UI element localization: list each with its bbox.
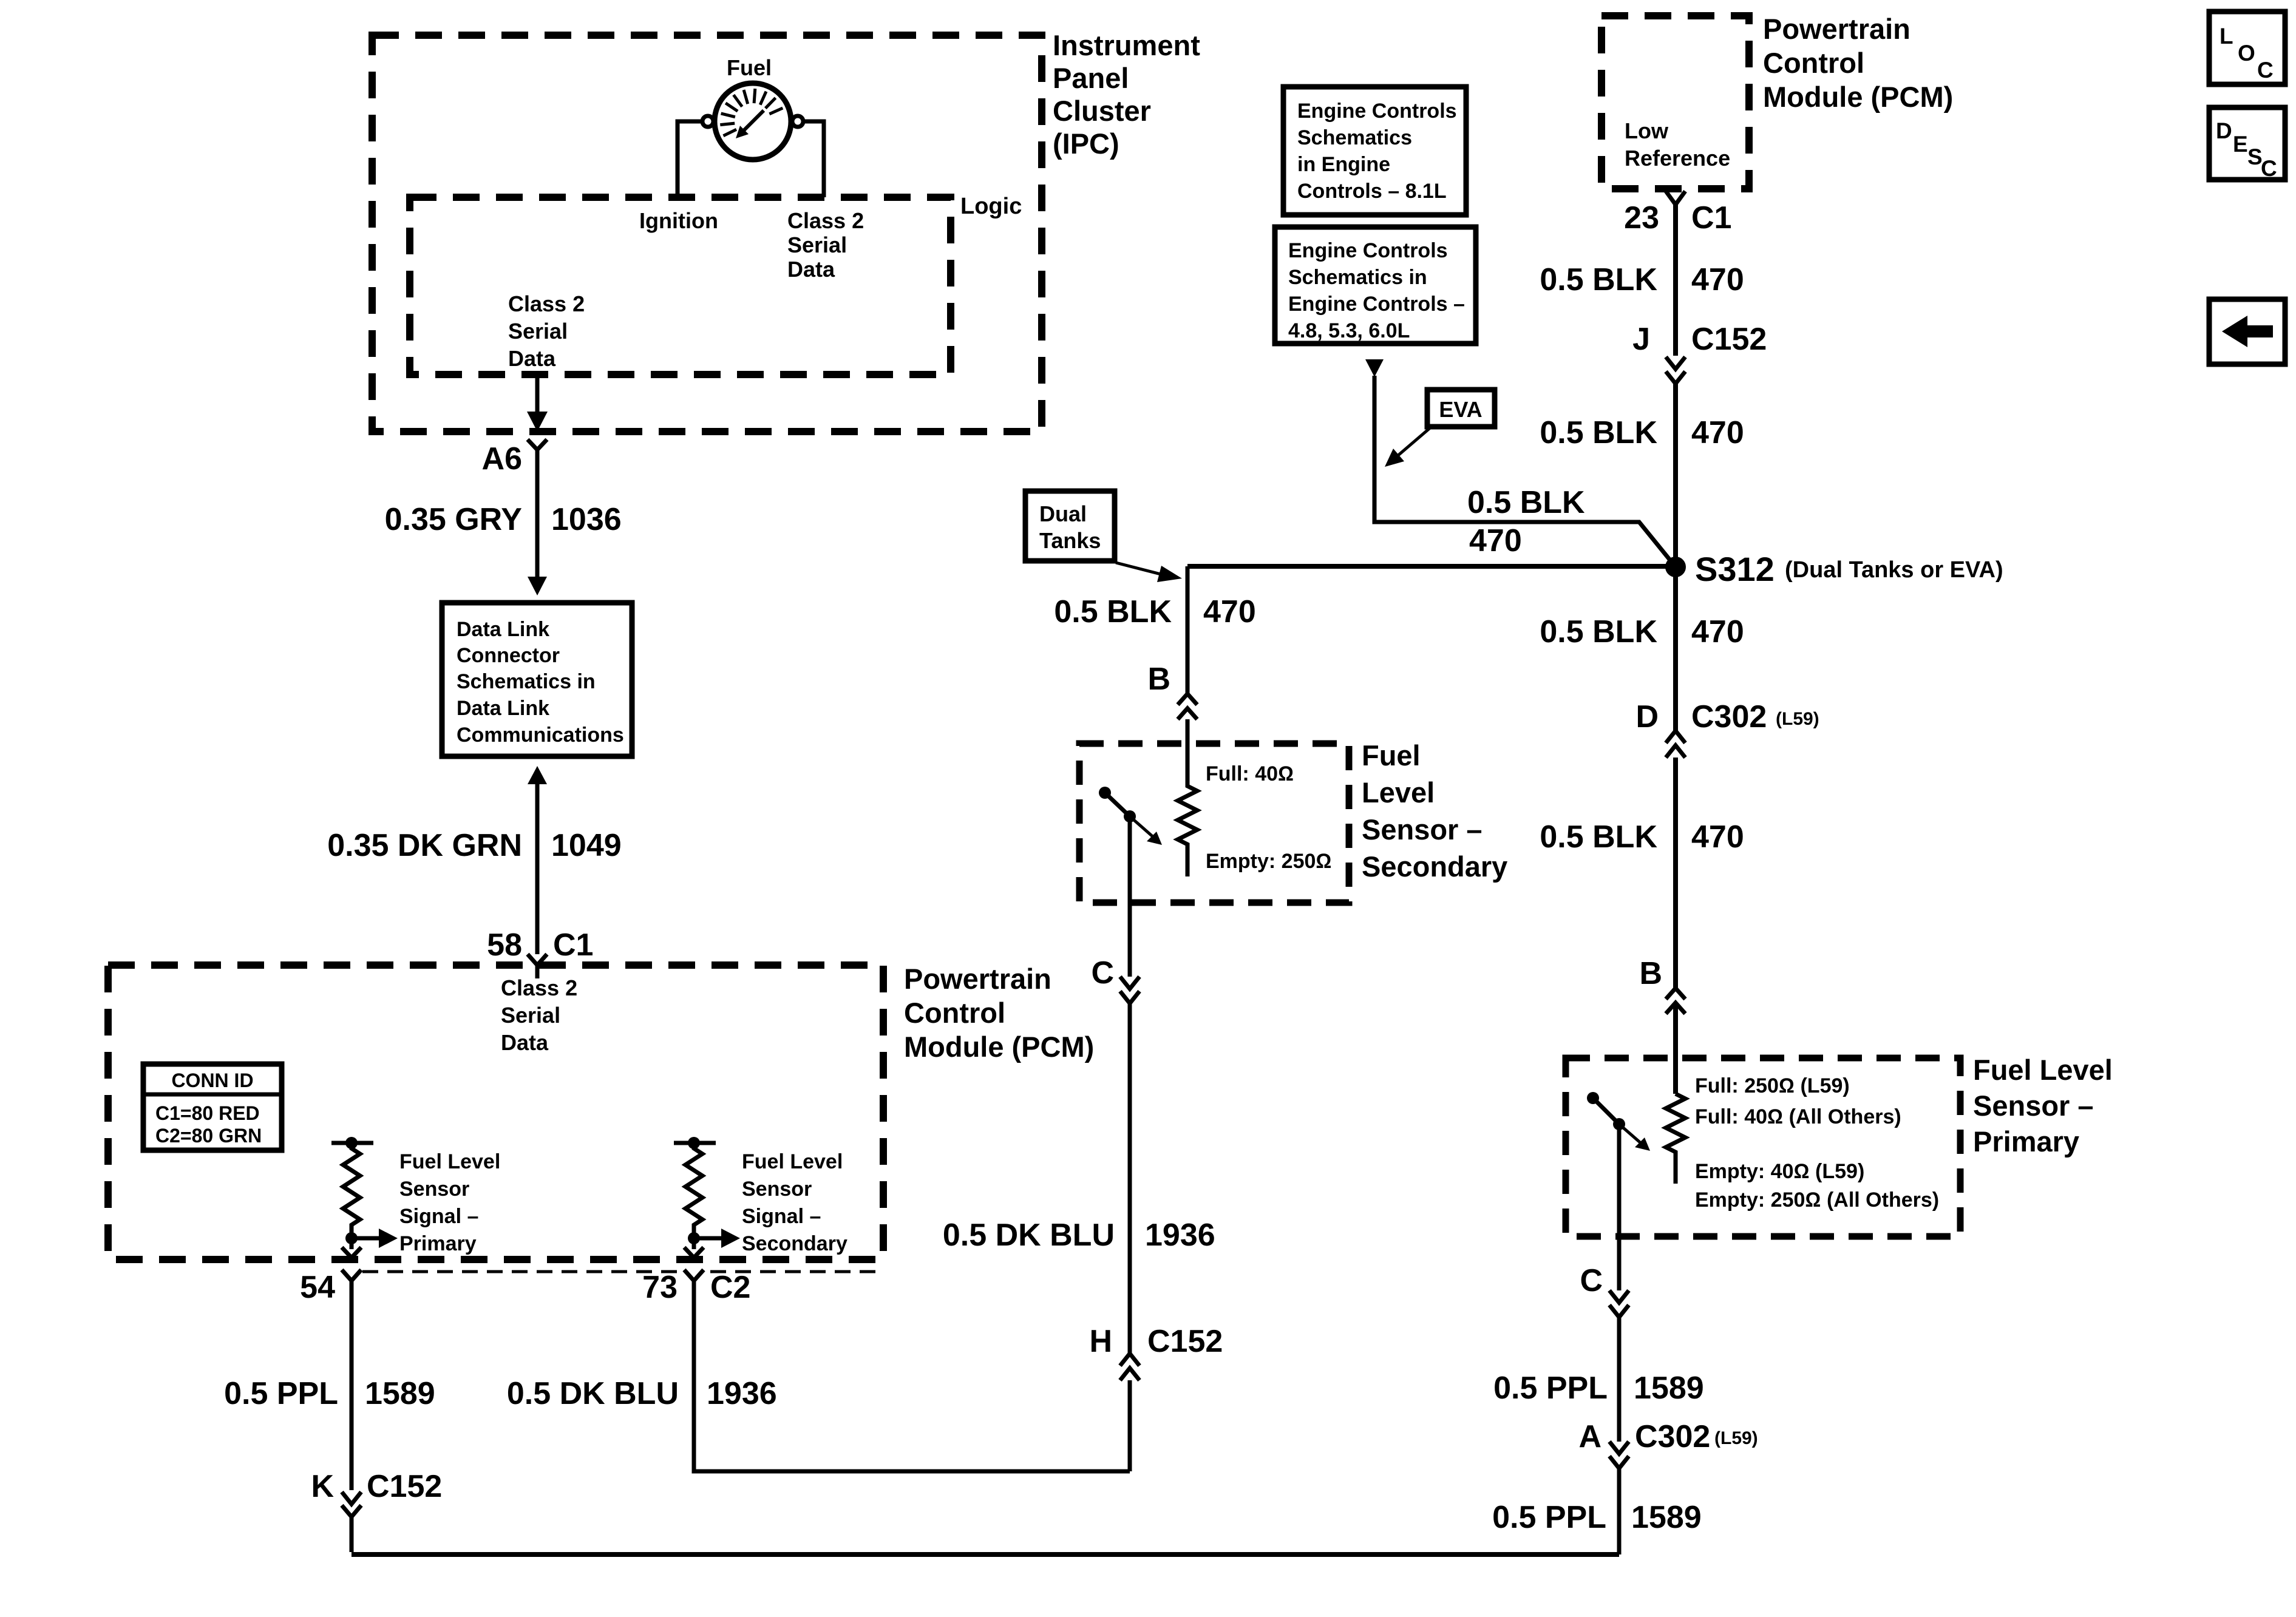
wire 470 BLK S312 to D C302 <box>1673 567 1678 731</box>
node S312 splice <box>1665 557 1686 577</box>
svg-text:Data: Data <box>501 1030 549 1055</box>
label Class 2 Serial Data (IPC output) <box>508 291 585 371</box>
svg-text:C302: C302 <box>1691 699 1767 734</box>
svg-text:Module (PCM): Module (PCM) <box>904 1031 1094 1063</box>
node arrow from engine controls box <box>1365 359 1384 377</box>
svg-text:Ignition: Ignition <box>639 208 718 233</box>
svg-text:470: 470 <box>1691 262 1744 297</box>
svg-text:Schematics: Schematics <box>1297 126 1412 149</box>
module Instrument Panel Cluster (IPC) dashed box <box>372 35 1042 432</box>
svg-text:470: 470 <box>1203 594 1256 629</box>
svg-text:Dual: Dual <box>1039 501 1087 526</box>
wire 470 BLK pin 23 to J C152 <box>1673 205 1678 356</box>
gauge G1 left pin <box>702 116 713 127</box>
label Fuel Level Sensor Signal Secondary <box>742 1150 847 1255</box>
svg-text:Full: 40Ω (All Others): Full: 40Ω (All Others) <box>1695 1105 1901 1128</box>
connector B of primary sensor <box>1666 988 1685 1014</box>
svg-text:C152: C152 <box>1147 1324 1223 1359</box>
svg-text:1589: 1589 <box>1634 1371 1704 1406</box>
resistor R4 primary sender element <box>1666 1094 1685 1184</box>
connector J C152 in-line <box>1666 357 1685 384</box>
box CONN ID legend <box>143 1064 282 1150</box>
svg-text:Schematics in: Schematics in <box>457 670 596 693</box>
connector pin 73 C2 of PCM <box>684 1270 704 1311</box>
label Fuel Level Sensor Signal Primary <box>399 1150 500 1255</box>
svg-text:C2: C2 <box>710 1270 750 1305</box>
svg-text:Signal –: Signal – <box>742 1205 821 1228</box>
svg-text:E: E <box>2233 132 2248 157</box>
gauge G1 needle <box>743 110 764 131</box>
box LOC nav button <box>2209 12 2285 84</box>
svg-text:1036: 1036 <box>551 502 622 537</box>
wire 1589 PPL A down to bottom run <box>1617 1468 1622 1554</box>
svg-text:4.8, 5.3, 6.0L: 4.8, 5.3, 6.0L <box>1288 319 1410 342</box>
svg-text:S312: S312 <box>1695 550 1775 588</box>
svg-text:A: A <box>1578 1419 1601 1454</box>
box DESC nav button <box>2209 107 2285 180</box>
svg-text:K: K <box>311 1469 334 1504</box>
module Fuel Level Sensor Secondary dashed box <box>1079 744 1349 903</box>
svg-text:0.5 BLK: 0.5 BLK <box>1467 485 1585 520</box>
svg-text:C: C <box>1580 1263 1603 1298</box>
gauge G1 right pin <box>792 116 803 127</box>
connector C of primary sensor <box>1609 1290 1629 1317</box>
svg-text:D: D <box>2216 118 2232 143</box>
connector pin 54 of PCM <box>342 1270 361 1311</box>
svg-text:1936: 1936 <box>1145 1218 1215 1253</box>
svg-text:C152: C152 <box>367 1469 442 1504</box>
svg-text:Sensor: Sensor <box>399 1178 469 1201</box>
svg-text:1589: 1589 <box>365 1376 435 1411</box>
svg-text:O: O <box>2238 41 2255 66</box>
svg-text:in Engine: in Engine <box>1297 153 1390 176</box>
resistor R3 secondary sender element <box>1178 719 1197 876</box>
label PCM title (lower left) <box>904 963 1094 1063</box>
wire R2 to pin 73 <box>692 1238 696 1249</box>
svg-text:0.5 PPL: 0.5 PPL <box>1493 1371 1608 1406</box>
svg-text:Engine Controls –: Engine Controls – <box>1288 293 1465 316</box>
wire 470 BLK EVA branch <box>1374 376 1673 564</box>
svg-text:Data Link: Data Link <box>457 697 549 720</box>
svg-text:1936: 1936 <box>707 1376 777 1411</box>
svg-text:Class 2: Class 2 <box>501 975 577 1000</box>
svg-text:L: L <box>2220 24 2233 49</box>
svg-text:Empty: 40Ω (L59): Empty: 40Ω (L59) <box>1695 1160 1864 1183</box>
svg-text:1589: 1589 <box>1631 1500 1702 1535</box>
svg-text:Class 2: Class 2 <box>787 208 864 233</box>
svg-text:0.5 DK BLU: 0.5 DK BLU <box>943 1218 1115 1253</box>
svg-text:0.5 PPL: 0.5 PPL <box>224 1376 338 1411</box>
svg-text:0.5 BLK: 0.5 BLK <box>1540 415 1657 450</box>
connector pin A6 of IPC <box>528 439 547 463</box>
svg-text:Serial: Serial <box>787 232 847 257</box>
svg-text:Tanks: Tanks <box>1039 528 1101 553</box>
wire gauge left pin to Logic box (Ignition) <box>678 121 702 197</box>
wire Dual Tanks leader arrow <box>1116 563 1161 574</box>
svg-text:(Dual Tanks or EVA): (Dual Tanks or EVA) <box>1785 557 2003 583</box>
wire dual tanks horizontal run to S312 <box>1187 564 1673 569</box>
resistor R1 fuel level sensor signal primary (in PCM) <box>331 1141 373 1145</box>
svg-text:Class 2: Class 2 <box>508 291 585 316</box>
svg-text:Control: Control <box>904 997 1005 1029</box>
svg-text:B: B <box>1147 662 1170 697</box>
svg-text:C: C <box>2257 58 2274 83</box>
svg-text:C1: C1 <box>553 927 593 963</box>
svg-text:C2=80 GRN: C2=80 GRN <box>155 1125 262 1147</box>
wire 1036 GRY from A6 to DLC box <box>535 463 540 578</box>
svg-text:Logic: Logic <box>960 194 1022 219</box>
svg-text:470: 470 <box>1469 523 1522 558</box>
svg-text:C: C <box>1091 955 1114 991</box>
connector B of secondary sensor <box>1178 694 1197 719</box>
wire Class 2 serial data from Logic box down to IPC edge <box>535 375 540 416</box>
svg-text:C302: C302 <box>1635 1419 1710 1454</box>
svg-text:Schematics in: Schematics in <box>1288 266 1427 289</box>
svg-text:EVA: EVA <box>1439 397 1482 422</box>
svg-text:(IPC): (IPC) <box>1053 127 1119 160</box>
switch SW2 primary sender wiper <box>1587 1092 1599 1104</box>
gauge G1 scale ticks <box>720 89 783 136</box>
label Fuel Level Sensor Secondary title <box>1362 739 1507 883</box>
wire 1936 DK BLU from H up to sensor wiper C <box>1128 1003 1132 1354</box>
svg-text:Engine Controls: Engine Controls <box>1297 100 1457 123</box>
wire 470 BLK secondary sensor to dual-tank run <box>1186 566 1190 694</box>
svg-text:Fuel: Fuel <box>727 55 772 80</box>
svg-text:470: 470 <box>1691 614 1744 649</box>
box Engine Controls Schematics 4.8 5.3 6.0L <box>1275 227 1476 344</box>
wire 1589 PPL from pin 54 down <box>350 1311 354 1490</box>
wire 470 BLK J to S312 <box>1673 384 1678 564</box>
svg-text:Sensor: Sensor <box>742 1178 812 1201</box>
svg-text:58: 58 <box>487 927 522 963</box>
module Powertrain Control Module (PCM) lower-left dashed box <box>108 965 883 1259</box>
svg-text:Empty: 250Ω: Empty: 250Ω <box>1206 850 1332 873</box>
svg-text:D: D <box>1635 699 1659 734</box>
wire B into primary sensor <box>1673 1003 1678 1094</box>
module Logic inner dashed box <box>410 197 951 375</box>
label Class 2 Serial Data (PCM input) <box>501 975 577 1055</box>
label Fuel Level Sensor Primary title <box>1973 1054 2113 1158</box>
svg-text:Instrument: Instrument <box>1053 29 1200 61</box>
svg-text:C: C <box>2261 156 2277 181</box>
connector pin 58 C1 of PCM <box>528 954 547 978</box>
wire R1 to pin 54 <box>350 1238 354 1249</box>
svg-text:Empty: 250Ω (All Others): Empty: 250Ω (All Others) <box>1695 1188 1939 1212</box>
svg-text:Data Link: Data Link <box>457 618 549 641</box>
svg-text:Sensor –: Sensor – <box>1362 813 1483 846</box>
svg-text:23: 23 <box>1624 200 1659 236</box>
box EVA tag <box>1427 390 1495 427</box>
wire 470 BLK D to B primary <box>1673 758 1678 988</box>
box Engine Controls Schematics 8.1L <box>1283 87 1466 215</box>
svg-text:CONN ID: CONN ID <box>171 1070 253 1091</box>
svg-text:Sensor –: Sensor – <box>1973 1090 2094 1122</box>
connector pin 23 C1 of PCM <box>1666 191 1685 219</box>
svg-text:Panel: Panel <box>1053 62 1129 94</box>
wire wiper of secondary sensor down to C <box>1128 816 1132 977</box>
resistor R2 fuel level sensor signal secondary (in PCM) <box>674 1141 716 1145</box>
svg-text:Fuel: Fuel <box>1362 739 1421 771</box>
svg-text:Controls – 8.1L: Controls – 8.1L <box>1297 180 1447 203</box>
switch SW1 secondary sender wiper <box>1099 787 1111 799</box>
label PCM title (top right) <box>1763 13 1953 113</box>
svg-text:C1=80 RED: C1=80 RED <box>155 1102 260 1124</box>
svg-text:C1: C1 <box>1691 200 1731 236</box>
box Data Link Connector reference <box>442 603 632 756</box>
svg-text:0.35 DK GRN: 0.35 DK GRN <box>327 828 522 863</box>
svg-text:1049: 1049 <box>551 828 622 863</box>
svg-text:Serial: Serial <box>501 1003 560 1028</box>
svg-text:Secondary: Secondary <box>1362 850 1507 883</box>
box back-arrow nav button <box>2209 299 2285 364</box>
wire 1049 DK GRN from 58 C1 up to DLC box <box>528 766 547 784</box>
svg-text:Secondary: Secondary <box>742 1232 847 1255</box>
svg-text:Communications: Communications <box>457 724 624 747</box>
svg-text:Fuel Level: Fuel Level <box>742 1150 843 1173</box>
label IPC title <box>1053 29 1200 160</box>
svg-text:Signal –: Signal – <box>399 1205 478 1228</box>
svg-text:C152: C152 <box>1691 322 1767 357</box>
wire gauge right pin to Logic box (Class 2 Serial Data) <box>803 121 824 197</box>
wire 1936 DK BLU from pin 73 down and right <box>694 1311 1130 1471</box>
module Fuel Level Sensor Primary dashed box <box>1566 1058 1960 1236</box>
svg-text:Cluster: Cluster <box>1053 95 1151 127</box>
svg-text:Primary: Primary <box>399 1232 477 1255</box>
svg-text:Full: 40Ω: Full: 40Ω <box>1206 762 1294 785</box>
svg-text:0.5 BLK: 0.5 BLK <box>1540 819 1657 855</box>
svg-text:Data: Data <box>787 257 835 282</box>
svg-text:Primary: Primary <box>1973 1125 2079 1158</box>
gauge G1 Fuel gauge body <box>715 83 791 160</box>
svg-text:A6: A6 <box>482 441 522 476</box>
connector face C2 thin dashed line <box>362 1270 680 1273</box>
svg-text:Connector: Connector <box>457 644 560 667</box>
svg-text:0.5 BLK: 0.5 BLK <box>1540 614 1657 649</box>
svg-text:0.5 BLK: 0.5 BLK <box>1540 262 1657 297</box>
svg-text:Powertrain: Powertrain <box>1763 13 1911 45</box>
svg-text:Control: Control <box>1763 47 1864 79</box>
module PCM (top right) Low Reference dashed box <box>1601 16 1749 189</box>
wire EVA leader arrow <box>1393 427 1432 459</box>
box Dual Tanks tag <box>1025 491 1115 561</box>
label Class 2 Serial Data (right pin) <box>787 208 864 282</box>
svg-text:0.5 BLK: 0.5 BLK <box>1054 594 1172 629</box>
node arrow to primary signal <box>352 1236 380 1241</box>
svg-text:Powertrain: Powertrain <box>904 963 1051 995</box>
svg-text:S: S <box>2247 144 2263 169</box>
node arrow to secondary signal <box>694 1236 722 1241</box>
svg-text:(L59): (L59) <box>1714 1428 1758 1448</box>
svg-text:Serial: Serial <box>508 319 568 344</box>
svg-text:Fuel Level: Fuel Level <box>399 1150 500 1173</box>
svg-text:470: 470 <box>1691 819 1744 855</box>
wire primary wiper down to C <box>1617 1124 1622 1290</box>
connector K C152 in-line <box>342 1492 361 1517</box>
wire bottom horizontal run 1589 PPL <box>352 1552 1619 1557</box>
svg-text:(L59): (L59) <box>1776 709 1819 729</box>
label Low Reference <box>1625 118 1730 171</box>
connector C of secondary sensor <box>1120 977 1140 1003</box>
svg-text:470: 470 <box>1691 415 1744 450</box>
svg-text:0.5 DK BLU: 0.5 DK BLU <box>507 1376 679 1411</box>
wire 1589 PPL C to A C302 <box>1617 1317 1622 1442</box>
svg-text:Module (PCM): Module (PCM) <box>1763 81 1953 113</box>
svg-text:0.35 GRY: 0.35 GRY <box>385 502 522 537</box>
svg-text:Low: Low <box>1625 118 1669 143</box>
wire K C152 to bottom run <box>350 1517 354 1552</box>
svg-text:Level: Level <box>1362 776 1435 808</box>
svg-text:H: H <box>1089 1324 1112 1359</box>
connector D C302 in-line <box>1666 731 1685 758</box>
connector A C302 in-line <box>1609 1442 1629 1468</box>
svg-text:Full: 250Ω (L59): Full: 250Ω (L59) <box>1695 1074 1850 1097</box>
svg-text:Engine Controls: Engine Controls <box>1288 239 1448 262</box>
svg-text:B: B <box>1639 956 1662 991</box>
svg-text:Data: Data <box>508 346 556 371</box>
svg-text:Reference: Reference <box>1625 146 1730 171</box>
svg-text:54: 54 <box>300 1270 335 1305</box>
svg-text:0.5 PPL: 0.5 PPL <box>1492 1500 1606 1535</box>
svg-text:Fuel Level: Fuel Level <box>1973 1054 2113 1086</box>
svg-text:73: 73 <box>642 1270 678 1305</box>
connector H C152 in-line <box>1120 1354 1140 1380</box>
wire 1936 DK BLU up to H C152 <box>1128 1380 1132 1471</box>
svg-text:J: J <box>1632 322 1650 357</box>
